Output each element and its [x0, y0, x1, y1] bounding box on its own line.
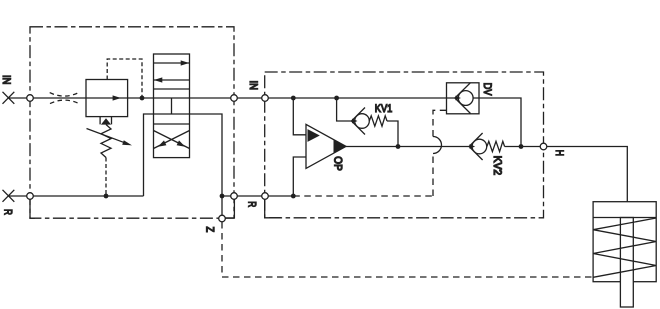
throttle (venturi) dashed arcs — [50, 93, 79, 97]
wire R main line left — [8, 195, 143, 197]
DV seat — [455, 83, 471, 114]
check valve KV2 seat — [469, 133, 483, 160]
PV spring — [101, 125, 111, 158]
cylinder piston line — [593, 217, 656, 219]
wire R riser and valve crossing — [144, 114, 223, 215]
enclosure box left (dash-dot) — [30, 27, 234, 218]
wire solid corner left-box bottom-right — [222, 199, 234, 218]
cylinder spring — [593, 218, 656, 277]
KV1 spring — [369, 116, 387, 126]
OP upper input wire — [293, 98, 306, 135]
port circle IN left — [27, 95, 34, 102]
wire solid corner left-box bottom-left — [30, 200, 35, 219]
PV pilot line (dashed) — [107, 59, 142, 98]
KV1 seat arrowhead — [352, 119, 358, 124]
cylinder rod — [620, 218, 633, 308]
valve crossed arrows (bottom section) — [154, 131, 190, 149]
enclosure box right (dash-dot) — [265, 72, 544, 218]
DV inner line — [447, 97, 480, 99]
KV1 outlet wire — [387, 121, 398, 147]
valve arrow right (top section) — [154, 62, 190, 64]
wire H to cylinder — [547, 147, 627, 202]
dashed cartridge boundary right with hop — [432, 154, 434, 197]
port circle IN right box — [262, 95, 269, 102]
svg-text:OP: OP — [332, 156, 344, 171]
junction dot pilot/IN — [140, 96, 145, 101]
svg-text:KV2: KV2 — [491, 156, 503, 176]
svg-text:R: R — [2, 209, 14, 215]
svg-text:Z: Z — [203, 227, 215, 233]
check valve DV body box — [447, 83, 480, 114]
port circle H — [540, 143, 547, 150]
junction dot R branch — [220, 194, 225, 199]
OP output triangle — [334, 140, 347, 153]
DV seat arrowhead — [455, 96, 461, 101]
svg-text:DV: DV — [481, 83, 493, 96]
check valve KV1 branch wire — [337, 98, 352, 121]
wire R to box ports — [222, 195, 293, 197]
OP lower input wire — [293, 157, 306, 196]
port circle R right box — [262, 193, 269, 200]
op-amp OP triangle — [306, 124, 346, 168]
wire IN line through to valve — [128, 97, 234, 99]
pressure reducing valve PV body — [86, 80, 128, 117]
main output wire y=146.5 — [346, 146, 469, 148]
PV drain line (dashed) — [105, 158, 107, 197]
valve section dividers — [154, 89, 190, 124]
junction dot DV/main — [519, 144, 524, 149]
hop arc over main line — [433, 137, 442, 154]
port X mark IN — [3, 92, 15, 104]
PV flow arrow — [86, 97, 128, 99]
port X mark R — [3, 190, 15, 202]
port circle IN left-box right — [231, 95, 238, 102]
junction dot OP upper input — [291, 96, 296, 101]
junction dot drain/R — [104, 194, 109, 199]
KV1 seat — [352, 108, 366, 135]
wire KV2 to H — [505, 146, 541, 148]
port circle R left-box right — [231, 193, 238, 200]
svg-text:H: H — [553, 150, 565, 156]
junction dot KV1 branch — [334, 96, 339, 101]
dashed cartridge boundary bottom — [293, 195, 433, 197]
directional valve DV1 outline — [154, 54, 190, 158]
KV2 seat arrowhead — [470, 144, 476, 149]
valve arrow left (top section) — [154, 79, 190, 81]
port circle R left — [27, 193, 34, 200]
svg-text:IN: IN — [247, 81, 259, 91]
svg-text:IN: IN — [0, 75, 12, 85]
port circle Z — [219, 215, 226, 222]
junction dot KV1/main — [396, 144, 401, 149]
PV vent bracket — [100, 117, 111, 125]
DV ball — [458, 91, 473, 106]
PV adjust arrow — [87, 129, 124, 143]
KV2 ball — [472, 139, 487, 154]
KV2 spring — [487, 141, 505, 151]
junction dot OP lower input — [291, 194, 296, 199]
dashed cartridge boundary top — [433, 110, 447, 136]
KV1 ball — [355, 114, 370, 129]
PV vent triangle — [101, 118, 111, 124]
DV outlet wire — [479, 98, 521, 147]
wire IN between boxes — [234, 97, 447, 99]
valve center divider — [171, 98, 173, 114]
wire IN main line left segment — [8, 97, 86, 99]
dashed Z line to cylinder — [222, 222, 593, 277]
cylinder body — [593, 202, 656, 282]
svg-text:KV1: KV1 — [375, 103, 393, 115]
OP input marker triangle — [308, 129, 320, 142]
svg-text:R: R — [245, 201, 257, 207]
wire solid corner right-box bottom-left — [265, 199, 281, 218]
